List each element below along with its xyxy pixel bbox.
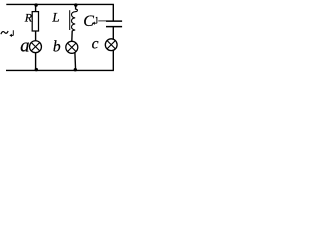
capacitor C bottom plate — [106, 26, 122, 28]
wire capacitor to lamp c — [112, 27, 114, 40]
lamp c circle — [105, 39, 117, 51]
wire R-box to lamp a — [35, 31, 37, 41]
wire C-branch upper vertical — [112, 4, 114, 21]
paragraph return mark after C label — [93, 17, 97, 23]
inductor L core line — [69, 10, 71, 30]
svg-text:a: a — [20, 37, 29, 57]
node junction dot bottom L — [74, 68, 77, 71]
resistor R box — [32, 12, 38, 31]
node junction dot top L — [74, 3, 77, 6]
wire lamp a to bottom bus — [35, 53, 37, 71]
svg-text:b: b — [53, 38, 61, 55]
lamp a circle — [30, 41, 42, 53]
wire top bus — [6, 3, 114, 5]
lamp b circle — [66, 41, 78, 53]
svg-text:R: R — [24, 11, 33, 25]
capacitor C top plate — [106, 20, 122, 22]
wire R-branch top lead — [35, 4, 37, 11]
lamp c cross — [107, 41, 115, 49]
wire L-branch top lead — [75, 4, 77, 9]
lamp b cross — [68, 43, 76, 51]
wire bottom bus — [6, 69, 114, 71]
inductor L coil — [72, 9, 78, 31]
wire lamp b to bottom bus — [74, 53, 77, 71]
paragraph return mark after tilde — [10, 30, 13, 35]
wire coil to lamp b — [71, 31, 73, 42]
node junction dot top R — [34, 3, 37, 6]
AC source tilde symbol — [1, 31, 8, 34]
svg-text:L: L — [51, 10, 59, 25]
svg-text:C: C — [83, 13, 94, 30]
node junction dot bottom R — [35, 68, 38, 71]
thin left extension of capacitor top plate — [98, 20, 106, 22]
svg-text:c: c — [92, 35, 99, 52]
wire lamp c to bottom bus — [112, 50, 114, 70]
lamp a cross — [31, 43, 39, 51]
